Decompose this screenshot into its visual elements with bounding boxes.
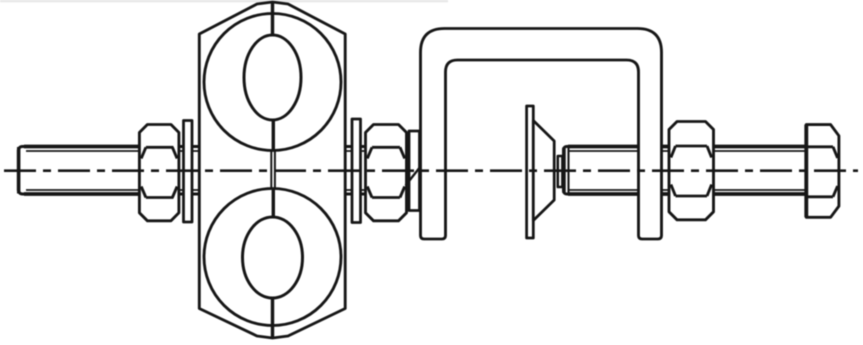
lower conductor hole ellipse <box>243 217 303 298</box>
washer W3 <box>409 131 420 211</box>
bolt B3 threaded shank <box>564 147 809 195</box>
left bolt B1 threaded shank <box>18 147 141 195</box>
cone socket neck ring <box>558 156 563 187</box>
cone socket flange disc <box>527 106 534 238</box>
horizontal centerline (dash-dot axis) <box>4 169 858 172</box>
clamp parting line: ellipse to upper bore arc (single) <box>272 120 275 152</box>
clamp plate upper bore circle <box>204 14 341 151</box>
clamp parting line: gap between halves (double) <box>271 150 275 190</box>
thread runout diagonal at W3 <box>406 167 421 186</box>
clamp parting line lower segment <box>271 298 274 338</box>
washer W1 <box>184 121 193 223</box>
hex nut N3 <box>669 122 714 220</box>
upper conductor hole ellipse <box>244 35 301 120</box>
clamp plate body (two-bolt PG clamp, side view octagon) <box>199 2 345 338</box>
bolt B2 shank segment right of plate <box>344 147 421 195</box>
hex bolt head B3 <box>806 125 839 218</box>
bolt B1 shank hidden segment at plate <box>176 147 200 195</box>
hex nut N1 <box>139 125 179 221</box>
clamp parting line: lower bore arc to ellipse (single) <box>272 188 275 219</box>
washer W2 <box>352 119 361 223</box>
cone socket body <box>533 121 554 221</box>
clevis U-bracket <box>421 29 662 240</box>
clamp plate lower bore circle <box>204 189 341 326</box>
hex nut N2 <box>366 125 407 221</box>
scan artifact line top <box>0 0 448 2</box>
clamp parting line upper segment <box>271 3 274 36</box>
